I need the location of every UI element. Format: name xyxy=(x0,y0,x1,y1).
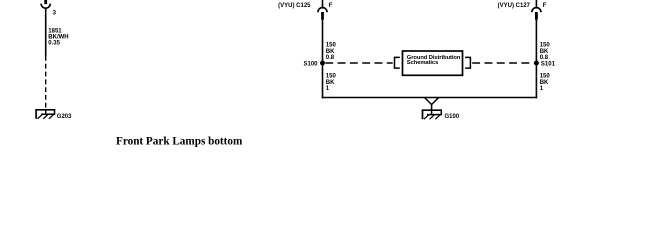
connector arc C127 xyxy=(532,8,541,13)
wire (right branch vertical) xyxy=(535,20,537,99)
dashed reference wire (left segment) xyxy=(325,62,392,64)
svg-text:G203: G203 xyxy=(57,114,72,120)
svg-text:150: 150 xyxy=(326,74,337,80)
svg-text:0.35: 0.35 xyxy=(48,41,60,47)
off-page bracket (right) xyxy=(465,57,470,68)
connector arc (left) xyxy=(41,4,50,9)
connector terminal stub (left, pin 3) xyxy=(44,0,47,4)
wire (Y junction to ground) xyxy=(425,98,432,105)
wire (bottom horizontal) xyxy=(322,97,538,99)
svg-text:Schematics: Schematics xyxy=(407,60,438,66)
connector arc C125 xyxy=(318,8,327,13)
svg-text:0.8: 0.8 xyxy=(540,55,549,61)
svg-text:BK: BK xyxy=(540,49,549,55)
svg-text:Front Park Lamps bottom: Front Park Lamps bottom xyxy=(116,136,243,148)
svg-text:BK: BK xyxy=(540,80,549,86)
wire (C127 top stub) xyxy=(535,0,537,9)
dashed reference wire (right segment) xyxy=(472,62,534,64)
svg-text:3: 3 xyxy=(53,11,57,17)
svg-text:BK/WH: BK/WH xyxy=(48,35,68,41)
svg-text:G100: G100 xyxy=(445,114,460,120)
svg-text:1851: 1851 xyxy=(48,28,62,34)
off-page bracket (left) xyxy=(395,57,400,68)
reference box Ground Distribution Schematics xyxy=(403,51,463,75)
svg-text:150: 150 xyxy=(540,43,551,49)
wire (left vertical solid) xyxy=(45,8,47,56)
wire (left vertical dashed) xyxy=(45,56,47,109)
wire (left branch vertical) xyxy=(322,20,324,99)
svg-text:F: F xyxy=(543,3,547,9)
svg-text:BK: BK xyxy=(326,49,335,55)
connector terminal stub C127 xyxy=(535,12,538,20)
svg-text:BK: BK xyxy=(326,80,335,86)
splice node S101 xyxy=(534,61,539,66)
svg-text:150: 150 xyxy=(540,74,551,80)
ground G203 xyxy=(36,109,55,119)
svg-text:1: 1 xyxy=(326,86,330,92)
connector terminal stub C125 xyxy=(321,12,324,20)
svg-text:S100: S100 xyxy=(303,62,318,68)
svg-text:1: 1 xyxy=(540,86,544,92)
svg-text:S101: S101 xyxy=(541,62,556,68)
splice node S100 xyxy=(320,61,325,66)
wire (C125 top stub) xyxy=(322,0,324,9)
svg-text:150: 150 xyxy=(326,43,337,49)
svg-text:0.8: 0.8 xyxy=(326,55,335,61)
svg-text:(VYU) C125: (VYU) C125 xyxy=(278,3,311,9)
ground G100 xyxy=(422,109,442,119)
svg-text:(VYU) C127: (VYU) C127 xyxy=(498,3,531,9)
svg-text:F: F xyxy=(329,3,333,9)
